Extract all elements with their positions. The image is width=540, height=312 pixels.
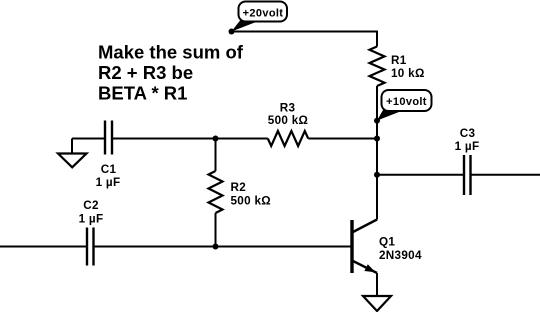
svg-text:C3: C3 bbox=[460, 127, 476, 140]
wire R2 top bbox=[215, 139, 217, 172]
svg-text:10 kΩ: 10 kΩ bbox=[391, 67, 425, 80]
svg-text:R2: R2 bbox=[231, 181, 247, 194]
ground left bbox=[58, 139, 87, 168]
svg-text:Make the sum of: Make the sum of bbox=[98, 42, 244, 63]
svg-text:R3: R3 bbox=[280, 102, 296, 115]
wire R3 to vertical rail bbox=[308, 138, 377, 140]
wire R1 bottom to collector bbox=[376, 86, 378, 220]
svg-text:1 µF: 1 µF bbox=[455, 140, 480, 153]
wire input bottom left bbox=[0, 246, 87, 248]
callout +20volt bbox=[232, 2, 288, 32]
capacitor C1 bbox=[96, 121, 121, 190]
svg-text:BETA * R1: BETA * R1 bbox=[98, 83, 187, 104]
wire +20V rail bbox=[232, 32, 378, 47]
svg-text:Q1: Q1 bbox=[379, 236, 395, 249]
node +20V dot bbox=[229, 29, 235, 35]
svg-text:1 µF: 1 µF bbox=[79, 213, 104, 226]
node R2 top junction dot bbox=[213, 136, 219, 142]
svg-text:500 kΩ: 500 kΩ bbox=[268, 114, 308, 127]
wire C2 to base bbox=[94, 246, 353, 248]
svg-text:R1: R1 bbox=[391, 54, 407, 67]
svg-text:+20volt: +20volt bbox=[243, 8, 284, 20]
wire ground to C1 bbox=[72, 138, 105, 140]
ground right bbox=[363, 296, 391, 311]
node R3/R1 junction dot bbox=[374, 136, 380, 142]
svg-text:C1: C1 bbox=[101, 163, 117, 176]
transistor Q1 bbox=[352, 220, 422, 274]
svg-text:500 kΩ: 500 kΩ bbox=[231, 195, 271, 208]
wire C3 to right edge bbox=[471, 174, 540, 176]
wire R2 bottom bbox=[215, 213, 217, 247]
svg-text:R2 + R3 be: R2 + R3 be bbox=[98, 62, 193, 83]
capacitor C2 bbox=[79, 199, 104, 266]
node C3 junction dot bbox=[374, 172, 380, 178]
svg-text:+10volt: +10volt bbox=[386, 96, 427, 108]
resistor R2 bbox=[209, 171, 271, 213]
svg-text:C2: C2 bbox=[83, 199, 99, 212]
svg-text:1 µF: 1 µF bbox=[96, 176, 121, 189]
resistor R1 bbox=[370, 47, 425, 87]
node +10volt dot bbox=[374, 118, 380, 124]
wire C3 branch bbox=[377, 174, 464, 176]
callout +10volt bbox=[377, 90, 432, 121]
svg-text:2N3904: 2N3904 bbox=[379, 249, 422, 262]
note text bbox=[98, 42, 244, 104]
resistor R3 bbox=[268, 102, 308, 147]
wire C1 to R3 bbox=[112, 138, 268, 140]
node R2 bottom junction dot bbox=[213, 244, 219, 250]
wire emitter down bbox=[376, 273, 378, 296]
capacitor C3 bbox=[455, 127, 480, 195]
